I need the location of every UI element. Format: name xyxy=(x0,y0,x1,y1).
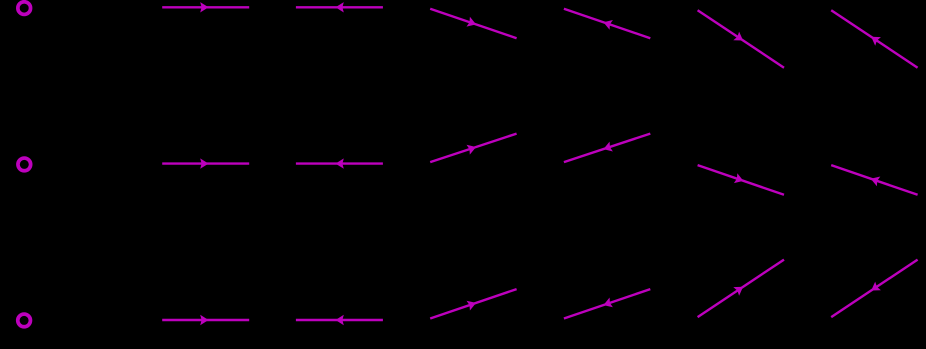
wave vector row 1 col 2 (horizontal backward) xyxy=(296,2,383,12)
wave vector row 1 col 5 (steep forward) xyxy=(698,10,784,67)
wave vector row 1 col 4 (shallow backward) xyxy=(564,9,650,38)
wave vector row 3 col 1 (horizontal forward) xyxy=(162,315,249,325)
source circle row 3 xyxy=(18,314,31,327)
wave vector row 3 col 4 (shallow backward) xyxy=(564,289,650,318)
wave vector row 1 col 1 (horizontal forward) xyxy=(162,2,249,12)
source circle row 1 xyxy=(18,2,31,15)
wave vector row 2 col 2 (horizontal backward) xyxy=(296,158,383,168)
wave vector row 1 col 3 (shallow forward) xyxy=(430,9,516,38)
wave vector row 2 col 5 (shallow forward) xyxy=(698,165,784,195)
wave vector row 1 col 6 (steep backward) xyxy=(831,10,917,67)
wave vector row 3 col 2 (horizontal backward) xyxy=(296,315,383,325)
wave vector row 2 col 1 (horizontal forward) xyxy=(162,158,249,168)
wave vector row 2 col 4 (shallow backward) xyxy=(564,134,650,163)
wave vector row 2 col 3 (shallow forward) xyxy=(430,134,516,163)
wave vector row 3 col 3 (shallow forward) xyxy=(430,289,516,318)
source circle row 2 xyxy=(18,158,31,171)
wave vector row 3 col 6 (steep backward) xyxy=(831,260,917,318)
wave vector row 2 col 6 (shallow backward) xyxy=(831,165,917,195)
wave vector row 3 col 5 (steep forward) xyxy=(698,260,784,318)
